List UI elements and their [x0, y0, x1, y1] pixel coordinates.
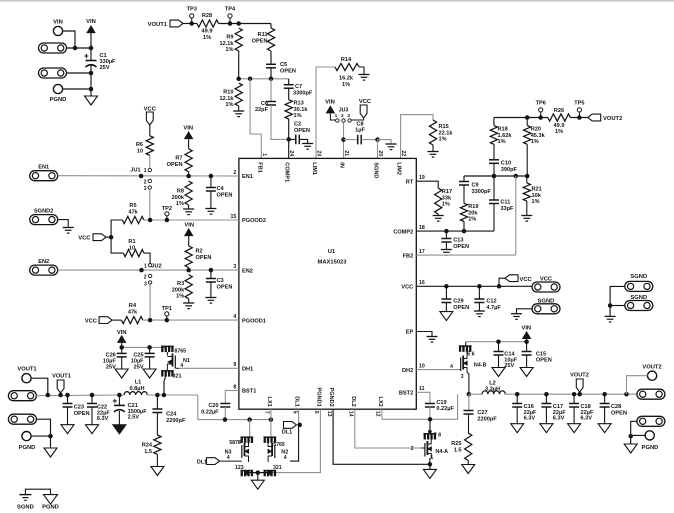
svg-text:1%: 1%	[442, 202, 450, 208]
svg-text:2: 2	[144, 179, 147, 185]
svg-text:R8: R8	[177, 189, 184, 195]
svg-text:DL1: DL1	[294, 396, 300, 407]
svg-text:C10: C10	[501, 161, 511, 167]
svg-text:3: 3	[461, 374, 464, 380]
svg-text:VIN: VIN	[86, 19, 96, 25]
svg-text:TP1: TP1	[162, 306, 172, 312]
svg-text:25V: 25V	[504, 363, 514, 369]
svg-text:1%: 1%	[342, 82, 350, 88]
svg-text:N1: N1	[183, 358, 190, 364]
svg-text:1%: 1%	[439, 137, 447, 143]
svg-text:R2: R2	[196, 249, 203, 255]
svg-text:PGND: PGND	[642, 445, 659, 451]
svg-text:JU3: JU3	[339, 107, 349, 113]
svg-text:1%: 1%	[555, 129, 563, 135]
svg-text:45.3k: 45.3k	[531, 133, 546, 139]
svg-text:C24: C24	[166, 412, 177, 418]
svg-text:1%: 1%	[468, 217, 476, 223]
svg-text:6: 6	[313, 411, 319, 414]
svg-text:1: 1	[144, 263, 147, 269]
svg-text:R17: R17	[442, 189, 452, 195]
svg-text:R7: R7	[175, 156, 182, 162]
svg-text:1%: 1%	[498, 139, 506, 145]
svg-text:4: 4	[450, 364, 453, 370]
svg-text:6.3V: 6.3V	[553, 416, 565, 422]
svg-text:R6: R6	[136, 142, 143, 148]
svg-text:R3: R3	[177, 281, 184, 287]
svg-text:SGND: SGND	[630, 274, 647, 280]
svg-text:LX2: LX2	[377, 397, 383, 407]
svg-text:22: 22	[400, 150, 406, 156]
svg-text:47k: 47k	[128, 309, 138, 315]
svg-text:JU1: JU1	[130, 168, 140, 174]
svg-text:24: 24	[288, 150, 294, 156]
svg-text:7 8: 7 8	[434, 432, 441, 438]
svg-text:20: 20	[377, 150, 383, 156]
svg-text:R1: R1	[128, 239, 135, 245]
svg-text:1µF: 1µF	[355, 128, 365, 134]
svg-text:C2: C2	[294, 122, 301, 128]
svg-text:321: 321	[173, 373, 182, 379]
svg-text:0.22µF: 0.22µF	[201, 409, 219, 415]
svg-text:BST1: BST1	[242, 389, 256, 395]
svg-text:12.1k: 12.1k	[220, 96, 235, 102]
svg-text:PGND: PGND	[19, 445, 36, 451]
svg-text:DH2: DH2	[402, 368, 413, 374]
svg-text:VOUT1: VOUT1	[52, 373, 71, 379]
svg-text:0.22µF: 0.22µF	[436, 406, 454, 412]
svg-text:25V: 25V	[106, 365, 116, 371]
svg-text:R18: R18	[498, 127, 508, 133]
svg-text:R21: R21	[532, 187, 542, 193]
svg-text:R20: R20	[531, 127, 541, 133]
svg-text:2: 2	[341, 113, 344, 119]
svg-text:2: 2	[144, 274, 147, 280]
svg-text:2200pF: 2200pF	[166, 418, 186, 424]
svg-text:R26: R26	[554, 108, 564, 114]
svg-text:6.3V: 6.3V	[97, 416, 109, 422]
svg-text:3300pF: 3300pF	[472, 189, 492, 195]
svg-text:22pF: 22pF	[255, 107, 269, 113]
svg-text:14: 14	[348, 411, 354, 417]
svg-text:R10: R10	[223, 90, 233, 96]
svg-text:200k: 200k	[172, 287, 185, 293]
svg-text:3300pF: 3300pF	[293, 90, 313, 96]
svg-text:5 6: 5 6	[467, 351, 474, 357]
svg-text:C23: C23	[74, 405, 84, 411]
svg-text:R9: R9	[226, 35, 233, 41]
svg-text:MAX15023: MAX15023	[317, 259, 347, 265]
svg-text:OPEN: OPEN	[294, 128, 310, 134]
svg-text:10: 10	[129, 245, 135, 251]
svg-text:RT: RT	[406, 179, 414, 185]
svg-text:1.5: 1.5	[144, 449, 152, 455]
svg-text:3: 3	[144, 186, 147, 192]
svg-text:EN1: EN1	[38, 164, 49, 170]
svg-text:R11: R11	[258, 32, 268, 38]
svg-text:U1: U1	[328, 249, 335, 255]
svg-text:2200pF: 2200pF	[477, 416, 497, 422]
svg-text:1: 1	[335, 113, 338, 119]
svg-text:10: 10	[137, 148, 143, 154]
svg-text:LIM2: LIM2	[396, 162, 402, 175]
svg-text:1%: 1%	[225, 47, 233, 53]
svg-text:SGND: SGND	[17, 505, 34, 511]
svg-text:0.8µH: 0.8µH	[129, 386, 144, 392]
svg-text:11: 11	[419, 386, 425, 392]
svg-text:R14: R14	[341, 57, 352, 63]
svg-text:7: 7	[264, 411, 270, 414]
svg-text:22.1k: 22.1k	[439, 130, 454, 136]
svg-text:VOUT1: VOUT1	[148, 22, 168, 28]
svg-text:13: 13	[326, 411, 332, 417]
svg-text:R13: R13	[294, 101, 304, 107]
svg-text:33k: 33k	[442, 195, 452, 201]
svg-text:20k: 20k	[468, 210, 478, 216]
svg-text:VIN: VIN	[325, 100, 335, 106]
svg-text:6.3V: 6.3V	[581, 416, 593, 422]
svg-text:5: 5	[291, 411, 297, 414]
svg-text:C3: C3	[217, 278, 224, 284]
svg-text:VOUT2: VOUT2	[603, 116, 622, 122]
svg-text:R28: R28	[202, 13, 212, 19]
svg-text:C8: C8	[356, 122, 363, 128]
svg-text:4.7µF: 4.7µF	[486, 305, 501, 311]
svg-text:VIN: VIN	[521, 326, 531, 332]
svg-text:3: 3	[233, 264, 236, 270]
svg-text:1%: 1%	[532, 199, 540, 205]
svg-text:OPEN: OPEN	[611, 410, 627, 416]
svg-text:SGND: SGND	[373, 162, 379, 178]
svg-text:1%: 1%	[531, 139, 539, 145]
svg-text:OPEN: OPEN	[74, 411, 90, 417]
svg-text:1%: 1%	[176, 294, 184, 300]
svg-text:OPEN: OPEN	[196, 255, 212, 261]
svg-text:COMP2: COMP2	[393, 229, 413, 235]
svg-text:12: 12	[375, 411, 381, 417]
svg-text:18: 18	[419, 225, 425, 231]
svg-text:LX1: LX1	[266, 397, 272, 407]
svg-text:21: 21	[343, 150, 349, 156]
svg-text:COMP1: COMP1	[284, 162, 290, 182]
svg-text:1%: 1%	[203, 35, 211, 41]
svg-text:VCC: VCC	[520, 277, 533, 283]
svg-text:3: 3	[347, 113, 350, 119]
svg-text:1.5: 1.5	[454, 447, 462, 453]
svg-text:OPEN: OPEN	[217, 192, 233, 198]
svg-text:5878: 5878	[229, 440, 241, 446]
svg-text:VIN: VIN	[184, 223, 194, 229]
svg-text:25V: 25V	[134, 365, 144, 371]
svg-text:1: 1	[261, 153, 267, 156]
svg-text:30.1k: 30.1k	[294, 107, 309, 113]
svg-text:VIN: VIN	[183, 126, 193, 132]
svg-text:TP3: TP3	[187, 6, 197, 12]
svg-text:DL2: DL2	[350, 396, 356, 407]
svg-text:OPEN: OPEN	[453, 305, 469, 311]
svg-text:19: 19	[419, 175, 425, 181]
svg-text:25V: 25V	[100, 65, 110, 71]
svg-text:4: 4	[284, 455, 287, 461]
svg-text:VCC: VCC	[401, 285, 413, 291]
svg-text:1%: 1%	[176, 201, 184, 207]
svg-text:R25: R25	[451, 441, 461, 447]
svg-text:C9: C9	[472, 183, 479, 189]
svg-text:VIN: VIN	[53, 20, 63, 26]
svg-text:C12: C12	[486, 299, 496, 305]
svg-text:OPEN: OPEN	[453, 244, 469, 250]
svg-text:C6: C6	[261, 101, 268, 107]
svg-text:2: 2	[411, 446, 414, 452]
svg-text:200k: 200k	[172, 195, 185, 201]
svg-text:12.1k: 12.1k	[220, 41, 235, 47]
svg-text:FB1: FB1	[256, 162, 262, 173]
svg-text:R19: R19	[468, 204, 478, 210]
svg-text:R24: R24	[142, 443, 153, 449]
svg-text:1%: 1%	[225, 102, 233, 108]
svg-text:IN: IN	[339, 162, 345, 168]
svg-text:PGND: PGND	[42, 505, 59, 511]
svg-text:OPEN: OPEN	[217, 284, 233, 290]
svg-text:16.2k: 16.2k	[339, 76, 354, 82]
svg-text:R4: R4	[129, 303, 137, 309]
svg-text:R5: R5	[129, 203, 136, 209]
svg-text:8: 8	[233, 384, 236, 390]
svg-text:6.3V: 6.3V	[524, 416, 536, 422]
svg-text:L1: L1	[135, 380, 142, 386]
svg-text:10k: 10k	[532, 193, 542, 199]
svg-text:1.62k: 1.62k	[498, 133, 513, 139]
svg-text:EP: EP	[406, 330, 414, 336]
svg-text:390pF: 390pF	[501, 167, 518, 173]
svg-text:VCC: VCC	[78, 236, 91, 242]
svg-text:DL1: DL1	[197, 459, 207, 465]
svg-text:23: 23	[316, 150, 322, 156]
svg-text:LIM1: LIM1	[311, 162, 317, 175]
svg-text:47k: 47k	[128, 209, 138, 215]
svg-text:EN2: EN2	[242, 268, 253, 274]
svg-text:VCC: VCC	[359, 99, 372, 105]
svg-text:OPEN: OPEN	[252, 38, 268, 44]
svg-text:C11: C11	[500, 200, 510, 206]
svg-text:C28: C28	[611, 404, 621, 410]
svg-text:C27: C27	[477, 410, 487, 416]
svg-text:PGND1: PGND1	[316, 388, 322, 407]
svg-text:TP6: TP6	[536, 100, 546, 106]
svg-text:N4-A: N4-A	[435, 449, 448, 455]
svg-text:DH1: DH1	[242, 367, 253, 373]
svg-text:TP4: TP4	[225, 6, 236, 12]
svg-text:C5: C5	[280, 62, 287, 68]
svg-text:OPEN: OPEN	[280, 68, 296, 74]
svg-text:SGND2: SGND2	[34, 209, 53, 215]
svg-text:2.5V: 2.5V	[128, 415, 140, 421]
svg-text:33pF: 33pF	[500, 206, 514, 212]
svg-text:EN1: EN1	[242, 174, 253, 180]
svg-text:VOUT2: VOUT2	[570, 372, 589, 378]
svg-text:C29: C29	[453, 299, 463, 305]
svg-text:TP2: TP2	[162, 206, 172, 212]
svg-text:R15: R15	[439, 124, 449, 130]
svg-text:VOUT2: VOUT2	[642, 364, 661, 370]
svg-text:9: 9	[233, 362, 236, 368]
svg-text:VOUT1: VOUT1	[17, 366, 37, 372]
svg-text:VCC: VCC	[85, 318, 98, 324]
svg-text:PGOOD2: PGOOD2	[242, 218, 266, 224]
svg-text:FB2: FB2	[403, 253, 414, 259]
svg-text:C4: C4	[217, 186, 225, 192]
svg-text:C7: C7	[295, 84, 302, 90]
svg-text:C13: C13	[453, 238, 463, 244]
svg-text:4: 4	[227, 455, 230, 461]
svg-text:OPEN: OPEN	[536, 357, 552, 363]
svg-text:8765: 8765	[175, 349, 187, 355]
svg-text:PGND2: PGND2	[328, 388, 334, 407]
svg-text:49.9: 49.9	[202, 29, 213, 35]
svg-text:N4-B: N4-B	[474, 363, 487, 369]
svg-text:PGND: PGND	[50, 97, 67, 103]
svg-text:DL1: DL1	[282, 430, 292, 436]
svg-text:1: 1	[431, 455, 434, 461]
svg-text:3: 3	[144, 282, 147, 288]
svg-text:EN2: EN2	[38, 259, 49, 265]
svg-text:10: 10	[419, 363, 425, 369]
svg-text:2: 2	[233, 170, 236, 176]
svg-text:PGOOD1: PGOOD1	[242, 318, 266, 324]
svg-text:C20: C20	[208, 403, 218, 409]
svg-text:BST2: BST2	[399, 391, 413, 397]
svg-text:OPEN: OPEN	[167, 162, 183, 168]
svg-text:1: 1	[144, 168, 147, 174]
svg-text:15: 15	[231, 214, 237, 220]
svg-text:TP5: TP5	[574, 100, 584, 106]
svg-text:16: 16	[419, 280, 425, 286]
svg-text:1%: 1%	[294, 113, 302, 119]
svg-text:JU2: JU2	[151, 263, 161, 269]
svg-text:17: 17	[419, 249, 425, 255]
svg-text:4: 4	[233, 314, 236, 320]
